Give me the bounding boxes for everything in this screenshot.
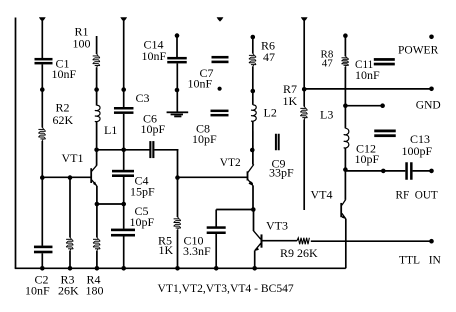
wire to GND terminal <box>304 88 431 90</box>
wire L3 to RF node <box>344 148 346 169</box>
wire C3 top <box>123 21 125 108</box>
wire VT2 emitter down <box>252 185 254 209</box>
supply arrow above C7 <box>217 17 224 21</box>
capacitor C9 <box>275 134 277 151</box>
svg-text:VT4: VT4 <box>311 188 333 202</box>
wire C1 top <box>41 21 43 59</box>
node RF junction <box>343 167 348 172</box>
wire emitter to C4C5 node <box>97 203 124 205</box>
capacitor C7 <box>212 56 229 59</box>
resistor R7 <box>304 107 305 108</box>
svg-text:10pF: 10pF <box>130 215 155 229</box>
svg-text:10pF: 10pF <box>192 132 217 146</box>
node C4/C5 midpoint <box>121 202 126 207</box>
resistor R4 <box>97 237 98 238</box>
wire C4 to C5 <box>123 177 125 229</box>
transistor VT2 collector lead <box>248 164 254 172</box>
wire R1 top <box>96 36 98 54</box>
transistor VT1 emitter arrow <box>93 182 97 187</box>
inductor L1 <box>95 105 100 122</box>
svg-text:R9 26K: R9 26K <box>280 246 318 260</box>
wire VT1 emitter down <box>96 186 98 238</box>
node L2 lower dot <box>250 148 255 153</box>
supply arrow above C3 <box>120 17 127 21</box>
wire C3 to C4 <box>123 114 125 170</box>
svg-text:15pF: 15pF <box>130 185 155 199</box>
svg-text:10pF: 10pF <box>141 122 166 136</box>
resistor R6 <box>253 54 254 55</box>
transistor VT2 emitter lead <box>248 180 253 186</box>
wire C2 to bus <box>41 253 43 268</box>
transistor VT2 emitter arrow <box>249 181 253 186</box>
svg-text:180: 180 <box>86 284 104 298</box>
wire C14 top <box>176 36 178 57</box>
svg-text:10nF: 10nF <box>142 49 167 63</box>
svg-text:C3: C3 <box>136 91 150 105</box>
node GND terminal <box>429 87 434 92</box>
svg-text:L1: L1 <box>104 123 117 137</box>
wire emitter follower tap <box>345 105 382 107</box>
wire L1 to VT1 collector <box>96 122 98 166</box>
node C14 top terminal <box>175 33 180 38</box>
wire R7 bottom <box>303 120 305 211</box>
transistor VT1 collector lead <box>92 165 97 171</box>
node C3 branch upper junction <box>121 87 126 92</box>
capacitor C10 <box>207 226 226 229</box>
node R3 top junction <box>68 175 73 180</box>
node R5 bus junction <box>175 266 180 271</box>
transistor VT4 emitter arrow <box>342 215 346 220</box>
node C14 wire dot <box>175 88 180 93</box>
node L1 / C6 wire junction <box>94 148 99 153</box>
svg-text:1K: 1K <box>283 94 298 108</box>
inductor L2 <box>251 105 256 122</box>
wire R1 to L1 <box>96 68 98 106</box>
svg-text:3.3nF: 3.3nF <box>183 244 211 258</box>
transistor VT1 base bar <box>90 168 92 183</box>
transistor VT1 emitter lead <box>92 180 97 186</box>
node VT1 base / C1 branch <box>40 175 45 180</box>
node TTL IN terminal <box>429 239 434 244</box>
resistor R1 <box>97 54 98 55</box>
svg-text:RF OUT: RF OUT <box>396 189 438 201</box>
transistor VT3 base bar <box>261 234 263 247</box>
wire bottom ground bus <box>15 267 346 269</box>
wire C1 to R2 <box>41 64 43 127</box>
wire VT4 emitter down <box>345 219 347 269</box>
node R4 bus junction <box>95 266 100 271</box>
wire R2 to base node <box>41 141 43 178</box>
svg-text:GND: GND <box>416 100 441 112</box>
transistor VT4 emitter lead <box>342 213 346 219</box>
supply arrow above R7 <box>301 17 308 21</box>
resistor R8 <box>345 56 346 57</box>
wire VT1 base <box>42 176 90 178</box>
svg-text:100: 100 <box>73 37 91 51</box>
wire L1 node to C6 <box>97 149 150 151</box>
wire C6 to corner <box>154 149 178 151</box>
transistor VT3 emitter lead <box>255 243 261 250</box>
transistor VT3 emitter arrow <box>255 247 259 251</box>
wire down to C2 <box>41 178 43 246</box>
svg-text:L3: L3 <box>320 108 333 122</box>
wire R7 top <box>303 21 305 107</box>
wire left supply rail <box>15 18 17 269</box>
capacitor C1 <box>35 58 53 61</box>
svg-text:POWER: POWER <box>398 45 439 57</box>
node C7 bottom dot <box>218 87 222 91</box>
wire R8 to L3 <box>344 67 346 129</box>
wire TTL in <box>346 240 431 242</box>
svg-text:10nF: 10nF <box>355 68 380 82</box>
svg-text:10pF: 10pF <box>355 152 380 166</box>
node R7 / GND wire junction <box>302 87 307 92</box>
node VT2 emitter junction <box>251 207 256 212</box>
svg-text:1K: 1K <box>159 243 174 257</box>
resistor R3 <box>70 237 71 238</box>
node VT3 emitter bus junction <box>252 266 257 271</box>
wire R8 top <box>344 36 346 57</box>
wire C10 to bus <box>215 234 217 268</box>
svg-text:47: 47 <box>263 50 275 64</box>
node tap right <box>380 103 385 108</box>
transistor VT4 base bar <box>340 203 342 217</box>
capacitor C3 <box>114 107 134 110</box>
wire R3 top <box>69 178 71 238</box>
capacitor C6 <box>149 141 151 158</box>
wire C10 drop <box>215 210 217 227</box>
wire R6 top <box>252 37 254 54</box>
capacitor C12 <box>374 130 396 133</box>
wire RF out right <box>413 170 432 172</box>
wire RF out left <box>345 170 405 172</box>
transistor VT2 base bar <box>247 171 249 180</box>
wire R5 to bus <box>177 230 179 268</box>
capacitor C14 <box>167 57 187 60</box>
node C10 bus junction <box>214 266 219 271</box>
capacitor C4 <box>112 170 134 173</box>
resistor R9 <box>297 238 309 244</box>
wire VT2 base <box>178 176 248 178</box>
svg-text:33pF: 33pF <box>269 166 294 180</box>
resistor R2 <box>42 128 43 129</box>
inductor L3 <box>344 128 349 148</box>
node R6/L2 junction <box>251 89 256 94</box>
node C5 bus junction <box>121 266 126 271</box>
node C2 bus junction <box>40 266 45 271</box>
node R8 top terminal <box>343 33 348 38</box>
node R3 bus junction <box>68 266 73 271</box>
svg-text:62K: 62K <box>53 113 74 127</box>
capacitor C2 <box>34 246 53 249</box>
capacitor C13 <box>405 162 408 180</box>
svg-text:VT1,VT2,VT3,VT4 - BC547: VT1,VT2,VT3,VT4 - BC547 <box>158 282 294 295</box>
wire VT3 collector down <box>253 210 255 232</box>
svg-text:VT1: VT1 <box>62 151 84 165</box>
wire corner down to base node <box>177 149 179 178</box>
node C1/R2 junction <box>40 87 45 92</box>
svg-text:10nF: 10nF <box>52 67 77 81</box>
svg-text:47: 47 <box>322 57 334 69</box>
svg-text:TTL IN: TTL IN <box>399 255 442 267</box>
wire VT3 base <box>262 240 297 242</box>
wire R4 to bus <box>96 251 98 269</box>
node R1/L1 junction <box>94 87 99 92</box>
supply arrow above C1 <box>39 17 46 21</box>
node C12 branch dot <box>381 169 386 174</box>
svg-text:26K: 26K <box>58 284 79 298</box>
wire C10 tap <box>216 209 253 211</box>
node RF OUT terminal <box>429 169 434 174</box>
wire R9 to TTL <box>311 240 346 242</box>
wire R3 to bus <box>69 251 71 269</box>
node tap left <box>343 103 348 108</box>
node R6 top terminal <box>251 35 256 40</box>
svg-text:VT2: VT2 <box>220 157 241 169</box>
resistor R5 <box>178 217 179 218</box>
wire C14 to ground <box>176 63 178 112</box>
svg-text:VT3: VT3 <box>266 219 288 233</box>
node VT2 base branch <box>175 175 180 180</box>
wire L2 to VT2 collector <box>252 121 254 164</box>
wire VT4 collector from RF node <box>344 170 346 200</box>
capacitor C11 <box>374 58 395 61</box>
capacitor C8 <box>211 110 229 113</box>
svg-text:100pF: 100pF <box>402 144 433 158</box>
node C6 wire crossing <box>121 148 126 153</box>
node POWER terminal <box>429 35 434 40</box>
wire VT3 emitter down <box>254 250 256 268</box>
wire R6 to L2 <box>252 67 254 105</box>
wire R5 branch down <box>177 178 179 217</box>
svg-text:10nF: 10nF <box>188 77 213 91</box>
capacitor C5 <box>111 229 135 232</box>
transistor VT3 collector lead <box>254 231 261 239</box>
svg-text:10nF: 10nF <box>25 284 50 298</box>
wire C5 to bus <box>123 237 125 269</box>
node VT1 emitter / C5 wire <box>95 202 100 207</box>
ground symbol <box>167 111 189 113</box>
transistor VT4 collector lead <box>342 200 346 206</box>
svg-text:L2: L2 <box>264 106 277 120</box>
